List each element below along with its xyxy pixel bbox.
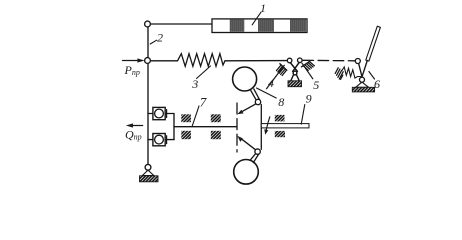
svg-text:4: 4	[268, 76, 274, 90]
svg-text:1: 1	[260, 1, 266, 15]
svg-text:9: 9	[306, 91, 312, 105]
svg-text:7: 7	[200, 95, 207, 110]
svg-text:Pпр: Pпр	[124, 63, 140, 77]
svg-text:8: 8	[278, 95, 284, 109]
svg-text:2: 2	[157, 30, 163, 44]
svg-text:5: 5	[313, 78, 319, 92]
svg-text:6: 6	[374, 77, 380, 91]
svg-text:Qпр: Qпр	[125, 128, 142, 142]
svg-text:3: 3	[191, 77, 198, 91]
